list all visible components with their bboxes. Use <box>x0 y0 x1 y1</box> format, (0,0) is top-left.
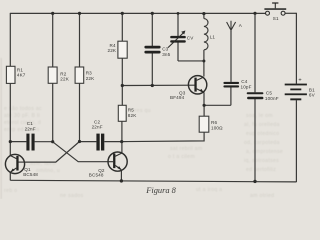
svg-text:C4: C4 <box>241 79 247 84</box>
wire bottom ground rail <box>10 180 296 182</box>
wire C4 bottom plate down to node F1 wire <box>230 87 232 105</box>
svg-text:100nF: 100nF <box>265 96 279 101</box>
junction top rail / R3 <box>78 12 81 15</box>
junction top rail / R4 <box>121 12 124 15</box>
svg-text:3n5: 3n5 <box>162 52 170 57</box>
junction top rail / R2 <box>51 12 54 15</box>
svg-text:Figura 8: Figura 8 <box>145 186 176 195</box>
wire top supply rail <box>10 12 265 14</box>
svg-text:al, fu orelleda: al, fu orelleda <box>244 122 280 128</box>
wire node F1 to C4 bottom column <box>204 104 231 106</box>
svg-text:CV: CV <box>187 36 194 41</box>
svg-text:BC548: BC548 <box>89 172 104 177</box>
svg-text:iq, sotroatses: iq, sotroatses <box>244 158 279 164</box>
svg-text:od, carpoteda: od, carpoteda <box>244 140 280 146</box>
switch S1 <box>264 2 286 21</box>
wire node B2 to C2 left plate <box>80 141 97 143</box>
wire R2 bottom to node B1 <box>52 83 54 142</box>
wire Q1 emitter to bottom rail <box>9 172 11 180</box>
wire left rail upper (top rail to R1 top) <box>9 13 11 67</box>
transistor Q2 <box>89 152 127 177</box>
svg-text:ut a iroq a: ut a iroq a <box>196 187 222 193</box>
wire battery - to bottom rail <box>295 100 297 182</box>
wire antenna stem to C4 top plate <box>230 31 232 82</box>
variable capacitor CV <box>168 31 194 48</box>
junction top rail / C3 <box>151 12 154 15</box>
resistor R5 <box>118 105 137 121</box>
junction node D1 (R4 / R5 / Q3 base) <box>121 84 124 87</box>
wire R5 bottom to node B3 / Q2 collector <box>121 121 123 153</box>
svg-text:C5: C5 <box>266 91 272 96</box>
inductor L1 <box>204 19 216 50</box>
capacitor C3 <box>144 46 170 57</box>
svg-text:C3: C3 <box>162 46 168 51</box>
svg-text:4K7: 4K7 <box>17 73 26 78</box>
wire C5 column (rail to C5 top) <box>254 13 256 92</box>
svg-text:22K: 22K <box>108 48 117 53</box>
junction node B1 (R2 / C1 / Q2 base) <box>51 140 54 143</box>
svg-text:omitno, u: omitno, u <box>36 168 60 174</box>
svg-text:+: + <box>298 78 301 84</box>
wire R4 bottom to node D1 <box>121 58 123 85</box>
junction node B3 (C2 / R5 / R6 / Q2 collector) <box>120 140 123 143</box>
svg-text:100Ω: 100Ω <box>211 126 223 131</box>
svg-text:S1: S1 <box>273 16 279 21</box>
antenna A <box>227 21 243 31</box>
wire R3 column (rail to R3 top) <box>79 13 81 67</box>
svg-text:22nF: 22nF <box>92 125 103 130</box>
wire Q2 emitter to bottom rail <box>120 171 122 181</box>
wire R2 column (rail to R2 top) <box>52 13 54 67</box>
junction node E1 (tank / Q3 collector) <box>202 60 205 63</box>
wire node B1 to Q2 base (diagonal + horizontal) <box>53 142 108 162</box>
wire L1 bottom to node E1 to Q3 collector <box>203 50 205 77</box>
svg-text:eup otednico: eup otednico <box>246 131 279 137</box>
wire tank bottom (CV to L1/Q3 collector) <box>178 60 204 62</box>
svg-text:22nF: 22nF <box>25 126 36 131</box>
capacitor C5 <box>247 91 279 101</box>
svg-text:R6: R6 <box>211 120 217 125</box>
svg-text:R5: R5 <box>128 108 134 113</box>
resistor R1 <box>6 66 25 83</box>
wire L1 top (rail to coil) <box>203 14 205 19</box>
svg-text:eterol ciado, d: eterol ciado, d <box>4 120 41 126</box>
wire R4 column (rail to R4 top) <box>121 13 123 41</box>
svg-text:6V: 6V <box>309 92 316 97</box>
wire S1 right terminal to right rail corner <box>285 12 296 14</box>
capacitor C4 <box>223 79 251 89</box>
svg-text:sat rebril am: sat rebril am <box>170 146 202 152</box>
resistor R4 <box>108 41 128 58</box>
svg-text:ed sertofiliz: ed sertofiliz <box>246 167 276 173</box>
wire R6 bottom to node B3 (down then left) <box>122 132 205 141</box>
junction node A1 (R1 / C1 / Q1 collector) <box>9 140 12 143</box>
wire CV column (rail to CV top) <box>177 13 179 36</box>
wire C3 column (rail to C3 top) <box>151 13 153 46</box>
wire C3 bottom to node D1 wire <box>151 53 153 85</box>
svg-text:82K: 82K <box>128 113 137 118</box>
capacitor C2 <box>92 120 105 151</box>
wire C2 right plate to node B3 <box>104 141 121 143</box>
junction top rail / CV <box>177 12 180 15</box>
wire node F1 to R6 top <box>203 105 205 116</box>
junction top rail / C5 <box>253 12 256 15</box>
svg-text:a, omprotense: a, omprotense <box>246 149 283 155</box>
junction node F1 (Q3 emitter / C4 / R6) <box>203 104 206 107</box>
transistor Q3 <box>170 76 207 100</box>
svg-text:ne sados: ne sados <box>60 193 84 199</box>
wire CV bottom to tank bottom <box>177 42 179 61</box>
svg-text:o t a cilem: o t a cilem <box>168 154 195 160</box>
svg-text:reb o: reb o <box>4 188 17 194</box>
junction bottom rail / Q2 emitter <box>120 179 123 182</box>
svg-text:soa, le om: soa, le om <box>246 113 273 119</box>
wire right rail (corner to battery +) <box>295 13 297 84</box>
svg-text:22K: 22K <box>86 76 95 81</box>
junction node D2 (C3 / base wire) <box>151 84 154 87</box>
svg-text:até 30 pF. B li: até 30 pF. B li <box>4 113 40 119</box>
wire node D1 to Q3 base <box>122 84 194 86</box>
svg-text:10pF: 10pF <box>241 84 252 89</box>
svg-text:BC548: BC548 <box>23 172 38 177</box>
junction bottom rail / C5 <box>253 180 256 183</box>
junction node B2 (R3 / C2 / Q1 base) <box>78 140 81 143</box>
wire R1 bottom to Q1 collector <box>9 83 11 156</box>
wire node D1 to R5 top <box>121 86 123 106</box>
svg-text:am otried: am otried <box>250 193 274 199</box>
wire C5 bottom to bottom rail <box>254 99 256 181</box>
capacitor C1 <box>25 121 36 150</box>
wire R3 bottom to node B2 <box>79 83 81 141</box>
resistor R2 <box>48 67 70 83</box>
svg-text:BF494: BF494 <box>170 95 185 100</box>
battery B1 <box>285 78 316 101</box>
wire C1 right plate to node B1 <box>35 141 53 143</box>
svg-text:R1: R1 <box>17 67 23 72</box>
svg-text:L1: L1 <box>210 35 216 40</box>
svg-text:22K: 22K <box>60 76 69 81</box>
junction top rail / L1 <box>202 12 205 15</box>
resistor R3 <box>75 67 95 83</box>
resistor R6 <box>199 116 223 132</box>
wire node B2 to Q1 base (diagonal + horizontal) <box>25 142 80 163</box>
transistor Q1 <box>5 154 38 176</box>
wire Q3 emitter to node F1 <box>203 92 205 105</box>
wire node A1 to C1 left plate <box>10 141 26 143</box>
